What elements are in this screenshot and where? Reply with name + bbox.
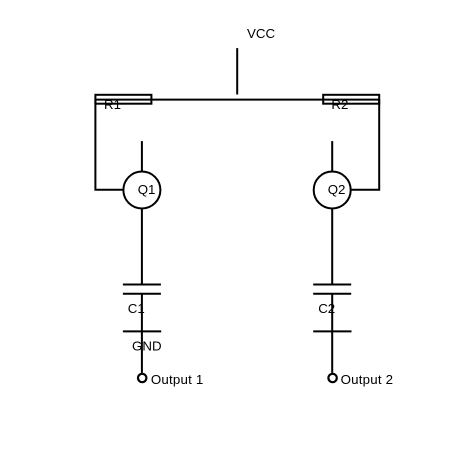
svg-text:VCC: VCC bbox=[247, 26, 275, 41]
svg-text:C1: C1 bbox=[128, 301, 145, 316]
svg-text:Output 2: Output 2 bbox=[341, 372, 394, 387]
svg-text:GND: GND bbox=[132, 339, 162, 354]
svg-text:Q2: Q2 bbox=[328, 182, 346, 197]
svg-text:R2: R2 bbox=[331, 97, 348, 112]
svg-text:Output 1: Output 1 bbox=[151, 372, 204, 387]
svg-text:Q1: Q1 bbox=[138, 182, 156, 197]
svg-text:C2: C2 bbox=[318, 301, 335, 316]
svg-text:R1: R1 bbox=[104, 97, 121, 112]
